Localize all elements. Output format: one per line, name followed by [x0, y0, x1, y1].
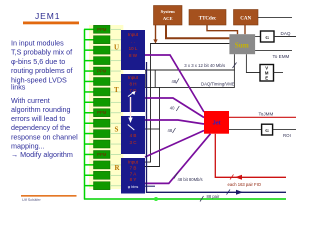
- input FPGA S: [121, 116, 145, 154]
- connector blocks (green): [94, 25, 111, 189]
- svg-text:Input: Input: [128, 160, 139, 165]
- svg-text:response on channel: response on channel: [11, 132, 78, 141]
- svg-text:8 Y: 8 Y: [130, 177, 137, 182]
- svg-text:7 A: 7 A: [130, 172, 137, 177]
- svg-text:φ-bins 5,6 due to: φ-bins 5,6 due to: [11, 57, 65, 66]
- svg-text:With current: With current: [11, 96, 50, 105]
- input FPGA T: [121, 74, 145, 112]
- System ACE box: [154, 6, 183, 26]
- svg-text:DAQ: DAQ: [281, 31, 291, 36]
- wire: G to ROI: [273, 129, 296, 131]
- wire: Sum down to readout bus: [233, 54, 235, 87]
- jet wire S upper: [145, 120, 204, 124]
- wire: Jet to G (ROI): [229, 129, 262, 131]
- svg-text:T: T: [114, 86, 119, 94]
- svg-text:ToJMM: ToJMM: [259, 112, 274, 117]
- svg-text:In input modules: In input modules: [11, 38, 64, 47]
- title underline: [23, 22, 79, 25]
- svg-text:Input: Input: [128, 32, 139, 37]
- svg-text:DAQ/Timing/VME: DAQ/Timing/VME: [201, 81, 235, 86]
- wire: short riser b: [154, 70, 156, 87]
- svg-text:JEM1: JEM1: [35, 11, 60, 21]
- Jet FPGA: [204, 111, 229, 134]
- svg-text:routing problems of: routing problems of: [11, 66, 73, 75]
- wire: R chain riser: [145, 87, 160, 166]
- svg-text:PPM: PPM: [97, 110, 107, 115]
- svg-text:Input: Input: [128, 75, 139, 80]
- wire: short riser a: [145, 70, 147, 87]
- wire: S stub: [145, 128, 160, 130]
- svg-text:PPM: PPM: [97, 27, 107, 32]
- wire: VME out: [274, 72, 284, 74]
- red FIO arrow: [235, 175, 242, 180]
- wire: Sum to VME: [246, 54, 260, 72]
- svg-text:. .: . .: [131, 39, 135, 44]
- svg-text:System: System: [161, 9, 175, 14]
- svg-text:U: U: [114, 43, 119, 51]
- connector labels (dark red): [97, 27, 107, 157]
- svg-text:φ bins: φ bins: [128, 185, 139, 189]
- glink G box DAQ: [261, 31, 275, 42]
- green input cable bus (left vertical): [84, 29, 86, 199]
- svg-text:48 bit 80Mb/s: 48 bit 80Mb/s: [178, 177, 203, 182]
- svg-text:88 pair: 88 pair: [207, 194, 220, 199]
- paragraph 1: [11, 38, 73, 91]
- wire: System ACE down arrow: [155, 25, 157, 40]
- svg-text:dependency of the: dependency of the: [11, 123, 70, 132]
- svg-text:PPM: PPM: [97, 69, 107, 74]
- wire: Jet to JMM: [229, 116, 296, 118]
- navy FIO bus: [147, 62, 287, 192]
- svg-text:G: G: [265, 35, 269, 40]
- svg-text:ACE: ACE: [163, 16, 173, 21]
- wire: Jet down FIO red: [215, 134, 286, 178]
- svg-text:→ Modify algorithm: → Modify algorithm: [11, 150, 73, 159]
- wire: TTCdec to Sum top: [207, 25, 238, 34]
- cable stubs to connectors: [84, 29, 94, 185]
- svg-text:8 W: 8 W: [129, 53, 138, 58]
- svg-text:To EMM: To EMM: [273, 54, 290, 59]
- wire: G to DAQ: [274, 36, 296, 38]
- svg-text:Ulf Schäfer: Ulf Schäfer: [22, 198, 42, 202]
- footer line: [21, 195, 77, 197]
- jet wire T: [145, 98, 204, 118]
- svg-text:7 B: 7 B: [130, 166, 137, 171]
- jet wire R: [145, 134, 211, 184]
- green junction dot: [154, 197, 158, 201]
- svg-text:T,S probably mix of: T,S probably mix of: [11, 48, 72, 57]
- svg-text:Sum: Sum: [235, 41, 249, 49]
- svg-text:TTCdec: TTCdec: [199, 17, 217, 22]
- jet wire S lower: [145, 131, 204, 158]
- TTCdec box: [189, 10, 226, 26]
- svg-text:each 163 pair FIO: each 163 pair FIO: [228, 182, 262, 187]
- CAN box: [234, 10, 259, 26]
- svg-text:PPM: PPM: [97, 152, 107, 157]
- input FPGA U: [121, 30, 145, 70]
- green cable bottom bus: [84, 198, 286, 200]
- navy FIO arrow: [236, 190, 243, 195]
- glink G box ROI: [262, 124, 273, 135]
- svg-text:8 H: 8 H: [129, 82, 136, 87]
- svg-text:4 B: 4 B: [130, 133, 137, 138]
- backplane links to FPGAs: [110, 29, 121, 185]
- wire: Sum to EMM: [255, 50, 292, 52]
- svg-text:3 x 3 x 12 bit 40 Mb/s: 3 x 3 x 12 bit 40 Mb/s: [184, 63, 225, 68]
- svg-text:ROI: ROI: [283, 133, 291, 138]
- mis-route diagonal in S: [128, 125, 135, 131]
- input FPGA R: [121, 158, 145, 194]
- wire: CAN to Sum top: [244, 25, 246, 34]
- svg-text:G: G: [265, 128, 269, 133]
- Sum FPGA: [229, 34, 255, 54]
- svg-text:3 C: 3 C: [129, 140, 137, 145]
- VME interface box: [260, 65, 274, 82]
- wire: U data to Sum: [145, 44, 230, 163]
- paragraph 2: [11, 96, 78, 150]
- backplane cream strip: [89, 25, 123, 189]
- svg-text:Jet: Jet: [212, 121, 220, 127]
- wire: 3x3x12bit bus: [145, 69, 235, 71]
- wire: R phi-bin link: [145, 185, 155, 187]
- wire: System ACE to Sum: [166, 25, 229, 38]
- svg-text:errors will lead to: errors will lead to: [11, 114, 65, 123]
- svg-text:40: 40: [170, 106, 175, 111]
- mis-route arrow up in T: [128, 92, 134, 97]
- svg-text:CAN: CAN: [240, 17, 251, 22]
- CAN bus line: [258, 16, 292, 18]
- jet wire U: [145, 55, 204, 112]
- mis-route vertical arrow T to S: [130, 97, 132, 119]
- svg-text:S: S: [115, 126, 119, 134]
- svg-text:48: 48: [168, 128, 173, 133]
- wire: Sum to G (DAQ): [255, 36, 260, 38]
- svg-text:links: links: [11, 83, 26, 92]
- svg-text:algorithm rounding: algorithm rounding: [11, 105, 71, 114]
- wire: DAQ/Timing/VME bus: [145, 86, 235, 88]
- svg-text:E: E: [265, 76, 268, 81]
- svg-text:10 L: 10 L: [129, 46, 138, 51]
